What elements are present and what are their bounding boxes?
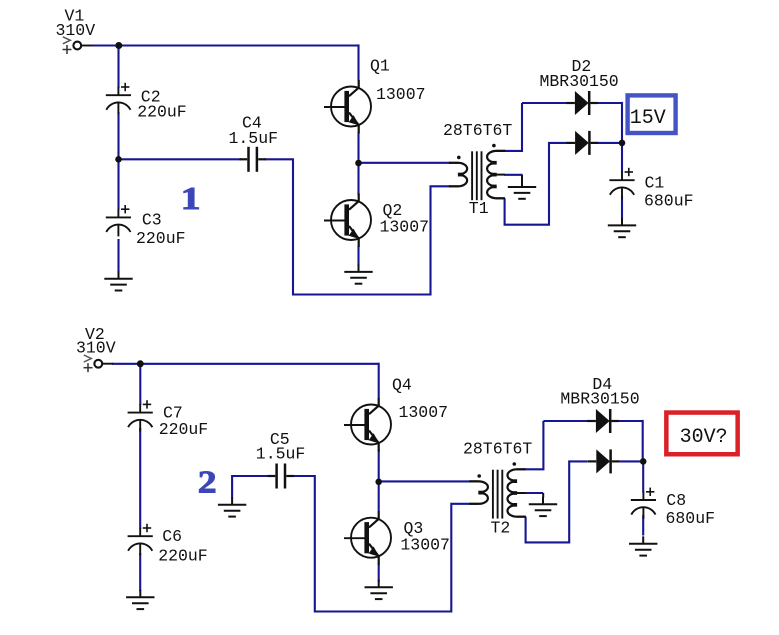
- svg-text:220uF: 220uF: [136, 229, 186, 248]
- svg-text:220uF: 220uF: [137, 102, 187, 121]
- svg-text:C8: C8: [666, 491, 686, 510]
- svg-text:2: 2: [198, 464, 217, 500]
- svg-text:C1: C1: [645, 173, 665, 192]
- svg-text:30V?: 30V?: [680, 426, 728, 449]
- svg-text:MBR30150: MBR30150: [540, 72, 619, 91]
- svg-text:1.5uF: 1.5uF: [229, 129, 279, 148]
- svg-text:13007: 13007: [399, 403, 449, 422]
- svg-text:MBR30150: MBR30150: [560, 389, 639, 408]
- svg-text:15V: 15V: [630, 107, 666, 130]
- svg-text:310V: 310V: [56, 21, 96, 40]
- svg-text:13007: 13007: [380, 217, 430, 236]
- svg-text:Q4: Q4: [392, 376, 412, 395]
- svg-text:680uF: 680uF: [644, 191, 694, 210]
- svg-text:220uF: 220uF: [158, 547, 208, 566]
- svg-text:C3: C3: [142, 211, 162, 230]
- svg-text:T2: T2: [491, 518, 511, 537]
- svg-text:13007: 13007: [376, 85, 426, 104]
- svg-text:1.5uF: 1.5uF: [256, 445, 306, 464]
- svg-text:310V: 310V: [76, 339, 116, 358]
- svg-text:28T6T6T: 28T6T6T: [443, 121, 512, 140]
- svg-text:1: 1: [181, 181, 201, 216]
- svg-text:220uF: 220uF: [159, 420, 209, 439]
- svg-text:Q1: Q1: [370, 57, 390, 76]
- svg-text:T1: T1: [469, 199, 489, 218]
- svg-text:C6: C6: [162, 527, 182, 546]
- svg-text:13007: 13007: [400, 536, 450, 555]
- svg-text:28T6T6T: 28T6T6T: [463, 440, 532, 459]
- svg-text:680uF: 680uF: [666, 509, 716, 528]
